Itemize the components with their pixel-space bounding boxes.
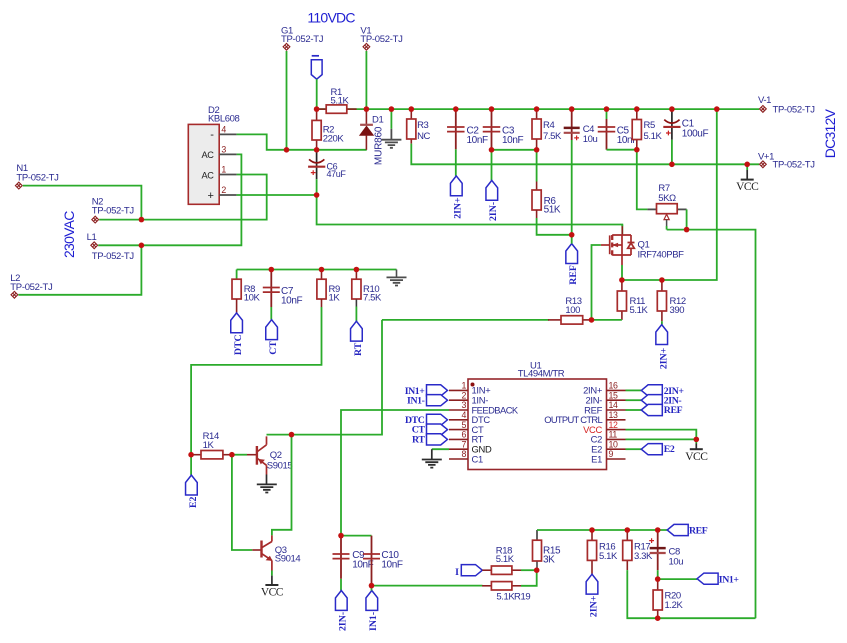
svg-text:14: 14	[609, 400, 618, 410]
svg-text:10u: 10u	[669, 556, 684, 567]
junction Q1 source / R11 top	[619, 277, 625, 283]
wire V1 to top bus	[365, 51, 367, 109]
wire junction down to R19	[521, 570, 537, 586]
svg-text:51K: 51K	[544, 205, 561, 216]
svg-text:R5: R5	[644, 120, 655, 131]
svg-text:1K: 1K	[329, 293, 341, 304]
wire Q3 emitter	[271, 571, 273, 576]
wire pin12 VCC	[626, 430, 697, 440]
flag REF at pin 14	[641, 404, 662, 415]
wire Q2 collector rail	[267, 320, 383, 435]
svg-text:110VDC: 110VDC	[307, 9, 355, 25]
svg-text:TL494M/TR: TL494M/TR	[518, 369, 565, 380]
pin 6 RT	[449, 438, 468, 440]
junction R20 bottom	[655, 615, 661, 621]
wire R7 right down	[686, 209, 688, 229]
wire C7 to CT flag	[270, 307, 272, 320]
svg-text:10nF: 10nF	[352, 560, 373, 571]
svg-text:RT: RT	[353, 342, 364, 356]
flag 2IN+ below C2	[450, 176, 462, 196]
wire C3 bottom to R4 bottom	[492, 149, 537, 151]
svg-text:AC: AC	[202, 170, 215, 180]
svg-text:2IN-: 2IN-	[488, 202, 499, 221]
wire pin10 to flag	[626, 448, 642, 450]
wire REF rail bottom	[537, 529, 667, 531]
svg-text:1: 1	[221, 165, 226, 175]
svg-text:E2: E2	[664, 444, 675, 455]
flag 2IN+ below R16	[586, 574, 598, 594]
svg-text:REF: REF	[568, 265, 579, 285]
svg-text:390: 390	[670, 305, 685, 316]
svg-text:9: 9	[609, 449, 614, 459]
svg-text:10nF: 10nF	[467, 135, 488, 146]
junction C8 top / REF flag	[655, 527, 661, 533]
flag E2 below R14	[186, 475, 198, 495]
svg-text:VCC: VCC	[261, 587, 284, 599]
svg-text:5.1K: 5.1K	[599, 551, 618, 562]
svg-text:4: 4	[221, 124, 226, 134]
wire R10 to RT flag	[355, 307, 357, 322]
svg-text:10u: 10u	[583, 134, 598, 145]
svg-text:TP-052-TJ: TP-052-TJ	[16, 173, 59, 184]
flag 2IN- below C3	[486, 180, 498, 200]
pin 2 1IN-	[449, 399, 468, 401]
wire N2 to bridge AC pin 1	[99, 175, 267, 220]
svg-text:7: 7	[462, 439, 467, 449]
wire bus drop to Q1 source net	[622, 109, 717, 280]
svg-text:TP-052-TJ: TP-052-TJ	[773, 104, 816, 115]
flag IN1- at pin 2	[427, 395, 448, 406]
wire R18 right to junction	[521, 569, 537, 571]
wire G1 to node	[286, 51, 288, 150]
wire IN1- drop	[371, 586, 373, 591]
wire R5 bottom to R7 left	[637, 150, 648, 210]
svg-text:E2: E2	[188, 497, 199, 509]
svg-text:1K: 1K	[203, 440, 215, 451]
ground symbol right of D1	[390, 109, 392, 129]
wire R17 bottom rail	[627, 570, 755, 618]
svg-text:2IN+: 2IN+	[453, 197, 464, 219]
wire C5 bottom to R5 bottom	[607, 149, 637, 151]
svg-text:3K: 3K	[543, 555, 555, 566]
junction G1 node	[284, 147, 290, 153]
junction N1/N2	[139, 217, 145, 223]
svg-text:DC312V: DC312V	[822, 108, 838, 158]
junction R7 right/wiper	[684, 227, 690, 233]
junction R12 top	[659, 277, 665, 283]
wire C6 bottom to Q1 drain	[317, 195, 623, 234]
svg-text:5.1K: 5.1K	[496, 592, 515, 603]
wire Q2 base	[232, 454, 247, 456]
junction R15/R18/R19	[534, 567, 540, 573]
flag CT at pin 5	[427, 424, 448, 435]
junction R4 bottom	[534, 147, 540, 153]
junction FEEDBACK / C9 top	[338, 533, 344, 539]
svg-text:10: 10	[609, 439, 618, 449]
junction R2 bottom / C6 top	[314, 147, 320, 153]
junction C7 top	[269, 267, 275, 273]
wire Q1 gate to R13	[592, 245, 601, 320]
svg-text:10nF: 10nF	[281, 296, 302, 307]
wire R13 right to R11 bottom	[592, 319, 622, 321]
junction C3/2IN- node	[489, 147, 495, 153]
svg-text:5.1K: 5.1K	[630, 305, 649, 316]
pin 9 E1	[607, 458, 626, 460]
flag 2IN- below C9	[335, 591, 347, 611]
wire R9 bottom to E2 net	[191, 307, 321, 455]
flag 2IN+ at pin 16	[641, 385, 662, 396]
svg-text:11: 11	[609, 430, 618, 440]
svg-text:7.5K: 7.5K	[543, 131, 562, 142]
flag RT at pin 6	[427, 434, 448, 445]
flag CT below C7	[266, 320, 278, 340]
pin 1 1IN+	[449, 389, 468, 391]
flag RT below R10	[351, 321, 363, 341]
svg-text:VCC: VCC	[685, 451, 708, 463]
svg-text:R3: R3	[417, 120, 428, 131]
svg-text:2IN+: 2IN+	[588, 595, 599, 617]
svg-text:TP-052-TJ: TP-052-TJ	[92, 251, 135, 262]
wire top bus V-1 net	[317, 108, 760, 110]
junction R9 top	[319, 267, 325, 273]
svg-text:TP-052-TJ: TP-052-TJ	[773, 160, 816, 171]
wire to flag 2IN-	[491, 150, 493, 181]
wire L1 to bridge AC pin 3	[98, 154, 241, 245]
svg-text:1: 1	[462, 381, 467, 391]
svg-text:8: 8	[462, 449, 467, 459]
wire FEEDBACK net	[341, 410, 449, 536]
pin 3 FEEDBACK	[449, 409, 468, 411]
vcc symbol below Q3 emitter	[271, 576, 273, 585]
wire RC network top rail	[237, 269, 397, 271]
svg-text:2IN-: 2IN-	[338, 612, 349, 631]
svg-text:AC: AC	[202, 150, 215, 160]
svg-text:C1: C1	[472, 453, 483, 464]
pin 12 VCC	[607, 429, 626, 431]
svg-text:3: 3	[462, 400, 467, 410]
wire R3 bottom to V+1 / VCC net	[411, 144, 759, 165]
svg-text:TP-052-TJ: TP-052-TJ	[10, 282, 53, 293]
pin 16 2IN+	[607, 389, 626, 391]
junction R10 top	[354, 267, 360, 273]
wire C10 bottom to R19	[372, 585, 483, 587]
svg-text:47uF: 47uF	[327, 169, 347, 179]
ground below Q2 emitter	[266, 475, 268, 485]
flag DTC below R8	[231, 313, 243, 333]
svg-text:VCC: VCC	[736, 181, 759, 193]
junction R5 bottom / C5 / R7 net	[634, 147, 640, 153]
svg-text:4: 4	[462, 410, 467, 420]
svg-text:V-1: V-1	[758, 95, 771, 106]
svg-text:12: 12	[609, 420, 618, 430]
svg-text:220K: 220K	[323, 133, 345, 144]
junction R14 left / E2	[188, 452, 194, 458]
junction R14 right / Q2 base	[229, 452, 235, 458]
svg-text:10nF: 10nF	[502, 135, 523, 146]
svg-text:KBL608: KBL608	[208, 114, 240, 125]
flag 2IN+ below R12	[656, 325, 668, 345]
svg-text:IRF740PBF: IRF740PBF	[638, 250, 685, 261]
junction R17 top	[625, 527, 631, 533]
svg-text:5KΩ: 5KΩ	[658, 193, 676, 204]
wire C9/C10 top link	[341, 535, 372, 537]
svg-text:16: 16	[609, 381, 618, 391]
svg-text:REF: REF	[689, 526, 708, 537]
svg-text:I: I	[455, 567, 459, 578]
wire bridge plus pin 2 to C6 bottom	[237, 194, 317, 196]
svg-text:2IN+: 2IN+	[659, 347, 670, 369]
junction Q2/Q3 collector	[289, 432, 295, 438]
junction C10 bottom / IN1-	[369, 583, 375, 589]
svg-text:IN1-: IN1-	[407, 396, 425, 407]
svg-text:+: +	[207, 190, 213, 202]
svg-text:IN1-: IN1-	[368, 612, 379, 631]
vcc symbol below V+1 wire	[746, 164, 748, 170]
svg-text:5.1K: 5.1K	[644, 131, 663, 142]
wire C8 bottom	[657, 570, 659, 579]
svg-text:100uF: 100uF	[682, 128, 709, 139]
flag 2IN- at pin 15	[641, 395, 662, 406]
wire R14 right to Q3 base	[232, 455, 252, 550]
wire C4 bottom to REF node	[571, 140, 573, 244]
svg-text:R19: R19	[514, 592, 530, 603]
junction C6 bottom / bridge plus	[314, 192, 320, 198]
wire to IN1+ flag	[658, 578, 697, 580]
wire bridge minus pin 4 to rectified node	[237, 134, 367, 149]
junction bus/ground branch	[389, 106, 395, 112]
svg-text:S9015: S9015	[267, 461, 293, 472]
svg-text:2: 2	[221, 185, 226, 195]
svg-text:REF: REF	[664, 405, 683, 416]
wire pin15 to flag	[626, 399, 642, 401]
svg-text:MUR860: MUR860	[373, 126, 384, 165]
pin 7 GND	[449, 448, 468, 450]
svg-text:100: 100	[565, 305, 580, 316]
svg-text:6: 6	[462, 430, 467, 440]
svg-text:10nF: 10nF	[381, 560, 402, 571]
junction L1/L2	[139, 243, 145, 249]
svg-text:TP-052-TJ: TP-052-TJ	[92, 205, 135, 216]
junction R13 / Q1 gate	[589, 317, 595, 323]
pin 11 C2	[607, 438, 626, 440]
wire pin11 C2	[626, 438, 697, 440]
wire E2 flag drop	[190, 455, 192, 475]
ground symbol right of RC rail	[396, 270, 398, 278]
svg-text:S9014: S9014	[275, 554, 301, 565]
svg-text:2: 2	[462, 390, 467, 400]
svg-text:NC: NC	[417, 131, 430, 142]
flag REF below C4/R6 junction	[566, 244, 578, 264]
svg-text:5.1K: 5.1K	[496, 554, 515, 565]
svg-text:3: 3	[221, 144, 226, 154]
wire GND pin 7	[432, 448, 449, 450]
svg-text:R4: R4	[543, 120, 554, 131]
junction C4 / R6 / REF flag	[569, 232, 575, 238]
wire R7 wiper net to bottom right	[667, 230, 756, 619]
junction VCC symbol node	[744, 162, 750, 168]
svg-text:10K: 10K	[244, 293, 261, 304]
flag DTC at pin 4	[427, 414, 448, 425]
wire pin16 to flag	[626, 389, 642, 391]
junction R1 right / V1 / D1	[364, 106, 370, 112]
junction C8 bottom / IN1+	[655, 576, 661, 582]
wire Q1 source down	[621, 265, 623, 280]
pin 5 CT	[449, 429, 468, 431]
pin 14 REF	[607, 409, 626, 411]
vcc symbol at pins 11/12	[695, 439, 697, 443]
svg-text:CT: CT	[268, 341, 279, 355]
pin 10 E2	[607, 448, 626, 450]
svg-text:7.5K: 7.5K	[363, 293, 382, 304]
flag IN1+ bottom right	[697, 573, 718, 584]
svg-text:L1: L1	[87, 232, 97, 243]
flag IN1- below C10	[366, 591, 378, 611]
junction pins 11/12 VCC	[694, 437, 700, 443]
svg-text:RT: RT	[412, 434, 425, 445]
junction bus / long drop	[714, 106, 720, 112]
svg-text:13: 13	[609, 410, 618, 420]
svg-text:TP-052-TJ: TP-052-TJ	[281, 34, 324, 45]
wire C2 bottom to flag	[455, 149, 457, 176]
svg-text:5: 5	[462, 420, 467, 430]
svg-text:15: 15	[609, 390, 618, 400]
junction R1 left / R2 top	[314, 106, 320, 112]
wire pin14 to flag	[626, 409, 642, 411]
wire R4/R6 link	[536, 150, 538, 182]
pin 15 2IN-	[607, 399, 626, 401]
junction C1 bottom on VCC wire	[669, 162, 675, 168]
wire N1	[23, 186, 142, 220]
svg-text:IN1+: IN1+	[719, 574, 740, 585]
wire flag to R1/R2 junction	[316, 79, 318, 109]
supply flag (unnamed) above R1	[312, 55, 319, 57]
svg-text:D1: D1	[372, 114, 383, 125]
wire Q3 collector riser	[272, 435, 292, 536]
flag IN1+ at pin 1	[427, 385, 448, 396]
wire R12 to flag	[661, 321, 663, 324]
wire R6 bottom to REF node	[537, 218, 572, 235]
svg-text:1.2K: 1.2K	[665, 600, 684, 611]
wire C9 to 2IN- flag	[340, 579, 342, 591]
svg-text:DTC: DTC	[233, 334, 244, 355]
ground symbol at pin 7	[431, 449, 433, 459]
pin 13 OUTPUT CTRL	[607, 419, 626, 421]
junction R16 top	[589, 527, 595, 533]
flag REF at C8 top	[667, 524, 688, 535]
pin 8 C1	[449, 458, 468, 460]
wire L2	[18, 245, 141, 294]
pin 4 DTC	[449, 419, 468, 421]
svg-text:E1: E1	[591, 453, 602, 464]
svg-text:230VAC: 230VAC	[61, 211, 77, 258]
flag E2 at pin 10	[641, 444, 662, 455]
